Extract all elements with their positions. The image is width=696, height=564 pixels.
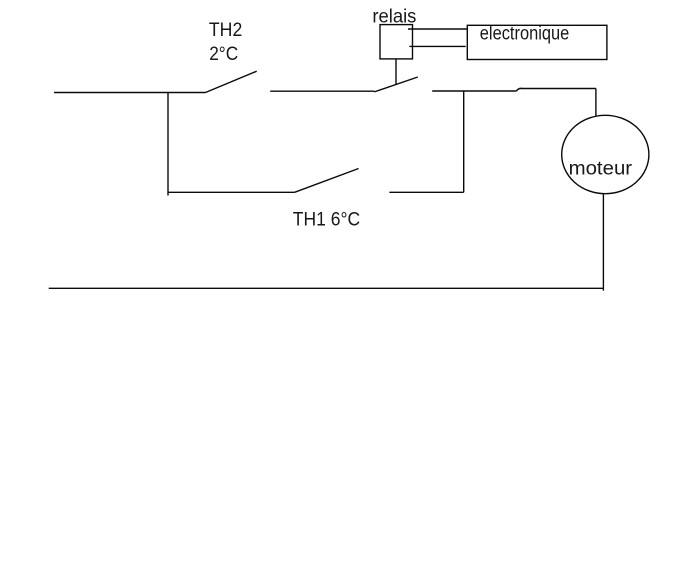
wire: relais contact to mid junction [432, 90, 516, 92]
wire: jog joint [517, 88, 523, 91]
switch: relais contact blade [374, 77, 418, 92]
wire: bottom return line [49, 287, 604, 289]
svg-text:TH1 6°C: TH1 6°C [293, 209, 360, 230]
wire: relais actuator link [395, 59, 397, 85]
wire: lower branch right (TH1 to mid junction) [389, 191, 463, 193]
svg-text:2°C: 2°C [209, 44, 238, 65]
wire: jog to moteur corner [522, 88, 596, 90]
wire: relais to electronique bottom link [409, 45, 465, 47]
wire: lower branch left (to TH1) [168, 191, 295, 193]
svg-text:electronique: electronique [480, 23, 570, 44]
motor M1 circle [562, 115, 649, 193]
wire: moteur down to return [602, 193, 604, 291]
wire: relais to electronique top link [408, 28, 467, 30]
wire: TH2 to relais contact [270, 90, 374, 92]
switch TH2 contact blade [206, 71, 257, 92]
wire: corner down to moteur [595, 89, 597, 117]
box: electronique module [467, 25, 607, 59]
switch TH1 contact blade [295, 169, 359, 193]
node: left junction vertical drop to lower branch [167, 92, 169, 195]
node: mid junction vertical to lower branch [463, 91, 465, 193]
svg-text:relais: relais [372, 7, 416, 28]
svg-text:moteur: moteur [569, 158, 633, 179]
wire: left supply to TH2 [54, 92, 206, 94]
svg-text:TH2: TH2 [209, 20, 242, 41]
relay coil box (relais) [380, 25, 413, 59]
